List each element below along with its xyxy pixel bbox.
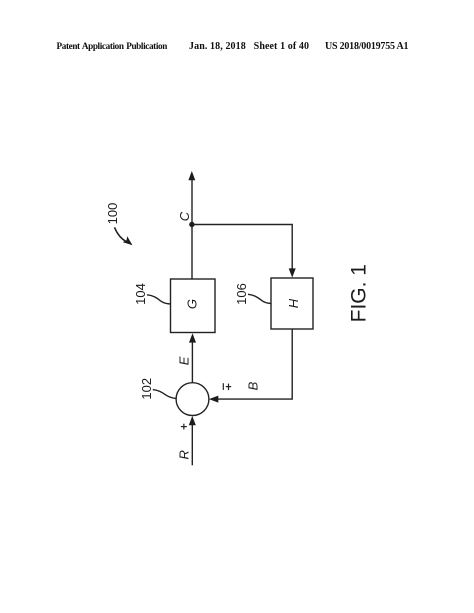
block H	[271, 278, 313, 329]
svg-text:FIG. 1: FIG. 1	[348, 264, 371, 322]
svg-text:B: B	[246, 381, 261, 390]
header: date and sheet	[189, 41, 309, 52]
svg-text:C: C	[177, 211, 192, 221]
svg-text:R: R	[177, 450, 192, 459]
header: publication line	[57, 41, 167, 51]
svg-text:102: 102	[139, 378, 154, 400]
summing junction 102 circle	[176, 383, 209, 416]
arrowhead: into H top (down)	[289, 268, 296, 277]
wire: E from summing junction up to block G	[191, 342, 193, 383]
svg-text:104: 104	[133, 283, 148, 305]
arrowhead: 100 leader (pointing southeast)	[123, 236, 133, 245]
svg-text:G: G	[185, 299, 200, 309]
minus-plus sign at summing junction feedback input	[222, 383, 224, 390]
plus sign at summing junction bottom input	[181, 426, 187, 428]
leader line for 106	[248, 294, 271, 303]
arrowhead: into summing junction bottom (up)	[189, 416, 196, 425]
leader line for 104	[147, 295, 171, 304]
feedback wire: H bottom down and left to summing junction	[218, 329, 293, 399]
wire: R input from bottom	[191, 425, 193, 466]
leader curved arrow for 100	[115, 227, 127, 242]
wire: output C to top arrow	[191, 179, 193, 225]
svg-text:E: E	[177, 356, 192, 365]
svg-text:100: 100	[105, 203, 120, 225]
svg-text:106: 106	[234, 283, 249, 305]
wire: branch from node C right and down to block H	[192, 225, 292, 270]
node C junction dot	[189, 222, 194, 227]
arrowhead: output C (up)	[188, 171, 195, 180]
block G	[171, 279, 216, 333]
arrowhead: into G bottom (up)	[189, 333, 196, 342]
wire: node C down to block G	[191, 225, 193, 280]
leader line for 102	[153, 390, 177, 399]
svg-text:H: H	[286, 298, 301, 308]
header: patent number	[325, 41, 408, 52]
arrowhead: into summing junction right (left)	[209, 396, 218, 403]
